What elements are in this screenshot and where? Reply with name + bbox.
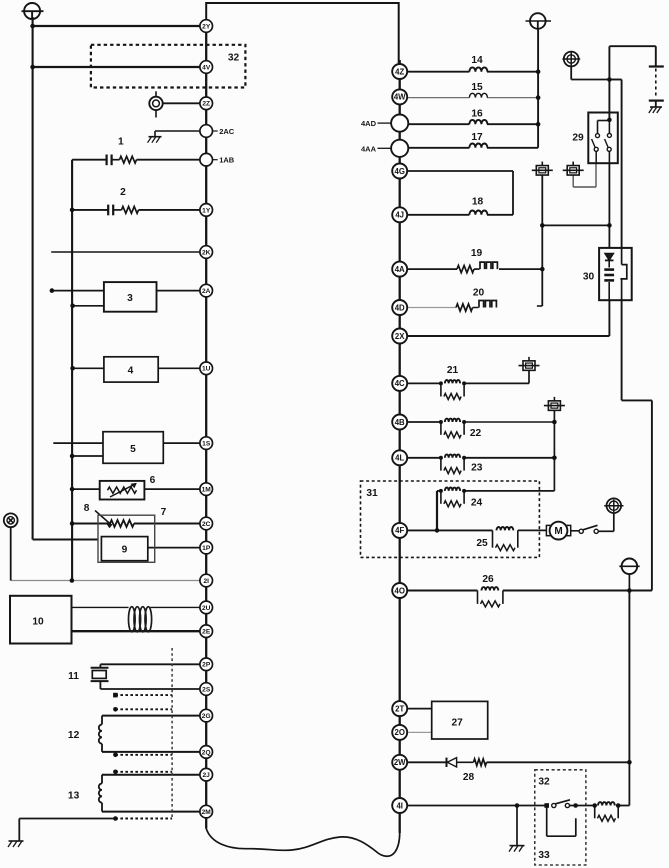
svg-text:4AA: 4AA (361, 144, 377, 153)
svg-text:2J: 2J (203, 772, 211, 779)
svg-text:7: 7 (161, 507, 167, 518)
svg-text:31: 31 (366, 488, 378, 499)
svg-text:25: 25 (476, 538, 488, 549)
svg-text:15: 15 (471, 82, 483, 93)
svg-text:1: 1 (118, 137, 124, 148)
svg-text:5: 5 (130, 444, 136, 455)
svg-text:2Z: 2Z (202, 101, 210, 108)
svg-text:30: 30 (583, 272, 595, 283)
svg-text:6: 6 (150, 475, 156, 486)
svg-text:28: 28 (463, 772, 475, 783)
svg-text:33: 33 (538, 850, 550, 861)
svg-text:2O: 2O (394, 728, 404, 737)
svg-text:2U: 2U (202, 605, 211, 612)
svg-text:4D: 4D (395, 303, 405, 312)
svg-text:4B: 4B (395, 418, 405, 427)
svg-text:2E: 2E (202, 629, 211, 636)
svg-text:2M: 2M (202, 809, 212, 816)
svg-text:4I: 4I (396, 801, 403, 810)
svg-text:24: 24 (471, 498, 483, 509)
svg-text:17: 17 (471, 132, 483, 143)
svg-text:2C: 2C (202, 521, 211, 528)
svg-text:14: 14 (471, 55, 483, 66)
svg-text:1P: 1P (202, 545, 211, 552)
svg-text:29: 29 (572, 133, 584, 144)
svg-text:4C: 4C (395, 379, 405, 388)
svg-text:2W: 2W (394, 758, 406, 767)
svg-text:2S: 2S (202, 686, 211, 693)
svg-text:19: 19 (471, 248, 483, 259)
svg-text:M: M (554, 526, 562, 537)
svg-text:11: 11 (68, 671, 79, 682)
svg-text:4W: 4W (394, 93, 406, 102)
svg-text:2T: 2T (395, 704, 404, 713)
svg-text:9: 9 (122, 545, 128, 556)
svg-text:4: 4 (128, 366, 134, 377)
svg-text:21: 21 (447, 365, 459, 376)
svg-text:1S: 1S (202, 440, 211, 447)
svg-text:4AD: 4AD (361, 119, 377, 128)
svg-text:4A: 4A (395, 265, 405, 274)
svg-text:2: 2 (120, 187, 126, 198)
svg-text:2K: 2K (202, 249, 211, 256)
svg-text:13: 13 (68, 791, 80, 802)
svg-text:12: 12 (68, 730, 80, 741)
svg-text:2Q: 2Q (202, 749, 211, 756)
svg-text:2P: 2P (202, 662, 211, 669)
svg-text:1U: 1U (202, 366, 211, 373)
svg-text:18: 18 (472, 197, 484, 208)
svg-text:26: 26 (482, 574, 494, 585)
svg-text:32: 32 (538, 777, 550, 788)
svg-text:2I: 2I (203, 578, 209, 585)
svg-text:4G: 4G (394, 167, 404, 176)
svg-text:20: 20 (473, 288, 485, 299)
svg-text:10: 10 (32, 617, 44, 628)
svg-text:4J: 4J (395, 211, 404, 220)
svg-text:2Y: 2Y (202, 23, 211, 30)
svg-text:22: 22 (470, 428, 482, 439)
svg-text:2A: 2A (202, 288, 211, 295)
svg-text:2X: 2X (395, 332, 405, 341)
svg-text:4F: 4F (395, 526, 404, 535)
svg-text:32: 32 (228, 53, 240, 64)
svg-text:2G: 2G (202, 713, 211, 720)
svg-text:16: 16 (471, 109, 483, 120)
svg-text:8: 8 (84, 503, 90, 514)
svg-text:23: 23 (471, 463, 483, 474)
svg-text:4L: 4L (395, 454, 404, 463)
svg-text:4Z: 4Z (395, 67, 404, 76)
svg-text:1AB: 1AB (219, 156, 235, 165)
svg-text:2AC: 2AC (219, 127, 235, 136)
svg-text:4O: 4O (394, 586, 404, 595)
svg-text:1Y: 1Y (202, 207, 211, 214)
svg-text:3: 3 (127, 293, 133, 304)
svg-text:4V: 4V (202, 64, 211, 71)
svg-text:1M: 1M (202, 486, 212, 493)
svg-text:27: 27 (452, 718, 464, 729)
